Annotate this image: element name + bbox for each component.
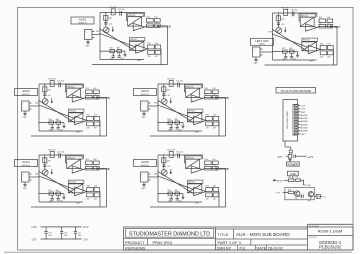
svg-text:4K7: 4K7 (94, 127, 97, 129)
svg-text:4n7: 4n7 (293, 59, 296, 61)
wire AUX1 divider branch (105, 13, 107, 28)
svg-text:100R: 100R (76, 132, 81, 134)
node CON1 pin 6 AUX3B (295, 120, 299, 122)
node AUX6 feed arrow (274, 179, 277, 181)
node IC2a designator strip (67, 85, 83, 88)
svg-text:PRODUCT: PRODUCT (125, 240, 145, 245)
resistor R52 (49, 192, 54, 195)
op-amp IC4b (75, 187, 87, 195)
svg-text:C41 47p: C41 47p (57, 151, 64, 153)
svg-text:POWER: POWER (288, 162, 299, 166)
svg-text:4K7: 4K7 (213, 198, 216, 200)
wire AUX3 bottom tap (158, 122, 183, 124)
svg-text:+: + (309, 52, 310, 54)
capacitor C35 (176, 124, 178, 127)
svg-text:R42: R42 (167, 119, 170, 121)
resistor R32 (49, 121, 54, 124)
resistor R59 (206, 193, 213, 197)
potentiometer VR2 (42, 99, 48, 105)
node CON1 pin 4 AUX1B (295, 114, 299, 116)
ground AUX5 jack ground (143, 182, 145, 185)
transistor TR1 (294, 191, 300, 197)
wire LEFT OUT bottom rail (273, 59, 317, 61)
node AUX5 output arrow (216, 168, 219, 170)
wire AUX5 lower return (150, 206, 226, 208)
connector J5 input jack (141, 172, 149, 182)
node AUX4 output arrow (97, 168, 100, 170)
svg-text:R34: R34 (204, 88, 207, 90)
svg-text:LEFT: LEFT (334, 25, 341, 29)
capacitor C54 (170, 195, 172, 198)
node AUX1 label box (71, 17, 94, 24)
resistor R40 (213, 117, 219, 121)
resistor R63 (175, 192, 180, 195)
node cue out label (320, 195, 322, 197)
resistor R21 (50, 80, 54, 86)
junction AUX4 rail taps (38, 171, 39, 172)
wire -17V rail (41, 238, 82, 240)
svg-text:(MON 3): (MON 3) (141, 94, 150, 96)
wire AUX5 divider branch (163, 155, 165, 170)
scan page-edge shadow (4, 251, 352, 253)
node CON1 pin 3 GND (295, 111, 299, 113)
wire AUX3 inner loop (218, 121, 220, 137)
node AUX2 output arrow (97, 97, 100, 99)
svg-text:DRG NO: DRG NO (309, 237, 317, 239)
svg-text:R51 10K: R51 10K (167, 150, 175, 152)
wire AUX3 stage1 out (202, 98, 204, 99)
svg-text:R48: R48 (87, 186, 90, 188)
svg-text:4n7: 4n7 (179, 201, 182, 203)
node CON1 pin 2 -17V (295, 108, 299, 110)
resistor R43 (43, 158, 47, 163)
capacitor C15 (118, 53, 120, 56)
wire LEFT OUT right loop (336, 27, 338, 66)
wire AUX2 lower return (31, 135, 107, 137)
svg-text:GND: GND (142, 188, 147, 190)
capacitor C41 (58, 153, 60, 158)
wire AUX2 left rail (38, 84, 40, 131)
svg-text:NE5532: NE5532 (188, 111, 195, 113)
svg-text:AUX3B: AUX3B (301, 120, 308, 123)
resistor R61 (288, 179, 294, 182)
resistor R51 (94, 193, 100, 197)
svg-text:AUX - MON SUB BOARD: AUX - MON SUB BOARD (236, 232, 290, 237)
resistor R18 (148, 45, 155, 49)
wire LEFT OUT inner loop (333, 50, 335, 66)
op-amp IC3a (191, 95, 202, 102)
wire LEFT OUT stage1 out (317, 27, 319, 28)
svg-text:+: + (306, 29, 307, 31)
node +VE label (304, 184, 306, 186)
svg-text:R68: R68 (320, 44, 323, 46)
resistor R71 (328, 51, 334, 55)
wire AUX5 crossover b (158, 176, 194, 189)
ground LEFT OUT jack ground (255, 57, 257, 60)
resistor R65 (319, 24, 326, 28)
svg-text:R61 10K: R61 10K (282, 8, 290, 10)
resistor R25 (86, 95, 93, 99)
resistor R73 (290, 50, 295, 53)
junction AUX2 rail taps (38, 100, 39, 101)
resistor R38 (206, 117, 213, 121)
svg-text:AUX3: AUX3 (141, 89, 149, 93)
svg-text:R41 10K: R41 10K (48, 150, 56, 152)
node POWER label box (287, 162, 300, 166)
node AUX4 send arrow (51, 169, 53, 172)
node CON1 pin 5 AUX2B (295, 117, 299, 119)
ground power ground (289, 158, 291, 160)
node title row (216, 228, 308, 230)
wire AUX3 crossover b (158, 105, 194, 118)
svg-text:AUX6B: AUX6B (301, 130, 308, 133)
wire AUX4 top rail (39, 154, 84, 156)
wire LEFT OUT divider branch (277, 13, 279, 28)
resistor R30 (94, 117, 100, 121)
svg-text:(MON 4): (MON 4) (22, 165, 31, 167)
resistor R21 (155, 50, 161, 54)
svg-text:+17V: +17V (83, 226, 89, 229)
op-amp IC4a (72, 166, 83, 173)
svg-text:C21 47p: C21 47p (57, 80, 64, 82)
capacitor C41 power (293, 155, 295, 158)
ground AUX5 bottom ground (182, 194, 184, 198)
svg-text:TR1: TR1 (294, 198, 297, 200)
diode D1 power (288, 154, 292, 158)
wire connector to power (284, 141, 286, 147)
junction AUX1 top node (126, 12, 127, 13)
svg-text:VR1: VR1 (96, 31, 100, 33)
ground LEFT OUT bottom ground (297, 52, 299, 56)
resistor R70 (328, 46, 334, 50)
junction AUX5 rail taps (157, 171, 158, 172)
capacitor C24 (51, 124, 53, 127)
resistor R22 (110, 50, 115, 53)
wire cue stub (292, 176, 294, 179)
fader F6a (300, 17, 314, 26)
svg-text:7: 7 (86, 32, 87, 34)
wire LEFT OUT crossover a (273, 30, 309, 52)
svg-text:CUE: CUE (290, 172, 296, 176)
resistor R20 (155, 45, 161, 49)
resistor R41 (50, 151, 54, 157)
svg-text:-17V: -17V (275, 193, 280, 195)
svg-text:+: + (192, 171, 193, 173)
capacitor C31 (177, 82, 179, 87)
wire AUX1 crossover b (100, 34, 136, 47)
svg-text:+: + (73, 100, 74, 102)
capacitor C42 (299, 195, 301, 197)
capacitor C40 power top (289, 150, 292, 153)
op-amp IC1b (136, 45, 148, 53)
wire +17V rail (41, 226, 82, 228)
svg-text:+: + (73, 171, 74, 173)
node LEFT OUT send arrow (284, 27, 286, 30)
svg-text:C63: C63 (327, 23, 330, 25)
resistor R56 (213, 161, 219, 165)
op-amp IC5a (191, 166, 202, 173)
resistor R46 (94, 161, 100, 165)
resistor R23 (117, 50, 122, 53)
wire AUX1 bottom rail (100, 59, 144, 61)
resistor R58 (206, 188, 213, 192)
wire AUX1 top rail (100, 12, 145, 14)
svg-text:R38: R38 (206, 115, 209, 117)
fader F4a (67, 159, 81, 168)
node title block outline (124, 227, 354, 250)
svg-text:C44: C44 (49, 201, 52, 203)
svg-text:C13: C13 (154, 22, 157, 24)
capacitor C45 (57, 195, 59, 198)
wire LEFT OUT crossover b (273, 34, 309, 47)
svg-text:100R: 100R (195, 132, 200, 134)
svg-text:+VE: +VE (306, 185, 311, 187)
svg-text:GND: GND (86, 46, 91, 48)
node CON1 pin 8 AUX5B (295, 127, 299, 129)
svg-text:+C: +C (323, 197, 326, 199)
svg-text:4K7: 4K7 (213, 127, 216, 129)
wire AUX2 stage1 out (83, 98, 85, 99)
junction LEFT OUT top node (298, 12, 299, 13)
svg-text:R28: R28 (87, 115, 90, 117)
svg-text:4K7: 4K7 (204, 165, 207, 167)
resistor R57 (213, 166, 219, 170)
node AUX2 send arrow (51, 98, 53, 101)
wire AUX2 right loop (106, 98, 108, 137)
wire AUX4 stage1 feedback (82, 155, 84, 159)
svg-text:AUX6: AUX6 (277, 180, 283, 183)
wire AUX3 stage1 feedback (201, 84, 203, 88)
wire AUX2 divider branch (44, 84, 46, 99)
svg-text:C52: C52 (167, 166, 170, 168)
svg-text:4n7: 4n7 (60, 201, 63, 203)
connector CON2 cue out (316, 194, 320, 198)
potentiometer VR5 (161, 170, 167, 176)
svg-text:100n: 100n (64, 235, 68, 237)
potentiometer VR6 (276, 28, 282, 34)
capacitor C11 (119, 11, 121, 16)
wire AUX4 right loop (106, 169, 108, 208)
connector J4 input jack (22, 172, 30, 182)
svg-text:NE5532: NE5532 (188, 182, 195, 184)
op-amp IC5b (194, 187, 206, 195)
wire LEFT OUT lower return (265, 64, 338, 66)
wire AUX3 lower return (150, 135, 226, 137)
wire AUX3 crossover a (158, 101, 194, 123)
capacitor C21 (58, 82, 60, 87)
fader F3a (186, 88, 200, 97)
node AUX1 send arrow (112, 27, 114, 30)
svg-text:100R: 100R (309, 61, 314, 63)
svg-text:4n7: 4n7 (60, 130, 63, 132)
resistor R33 (56, 121, 61, 124)
wire LEFT OUT output line (319, 26, 337, 28)
svg-text:VR5: VR5 (154, 174, 158, 176)
ground AUX1 jack ground (87, 40, 89, 43)
svg-text:C53: C53 (212, 165, 215, 167)
svg-text:C32: C32 (167, 95, 170, 97)
op-amp IC2b (75, 116, 87, 124)
node LEFT OUT output arrow (330, 26, 333, 28)
svg-text:VR2: VR2 (35, 103, 39, 105)
resistor R13 (104, 15, 108, 20)
fader F1b (129, 41, 144, 50)
capacitor C64 (285, 53, 287, 56)
resistor R54 (205, 161, 212, 165)
wire AUX2 top rail (39, 83, 84, 85)
node CON1 pin 7 AUX4B (295, 124, 299, 126)
svg-text:7: 7 (23, 104, 24, 106)
fader F5b (187, 184, 202, 193)
svg-text:+: + (194, 194, 195, 196)
node AUX1 output arrow (158, 25, 161, 27)
node AUX2 label box (15, 89, 38, 96)
node IC3a designator strip (186, 85, 202, 88)
node AUX5 send arrow (170, 169, 172, 172)
resistor R27 (94, 95, 100, 99)
svg-text:R72: R72 (282, 48, 285, 50)
wire AUX4 crossover a (39, 172, 75, 194)
resistor R17 (155, 24, 161, 28)
wire AUX5 left rail (157, 155, 159, 202)
wire AUX1 crossover a (100, 29, 136, 51)
capacitor C61 (291, 11, 293, 16)
svg-text:R24: R24 (85, 88, 88, 90)
svg-text:LEFT: LEFT (301, 134, 307, 136)
svg-text:R11 10K: R11 10K (109, 7, 117, 9)
fader F2a (67, 88, 81, 97)
resistor R37 (213, 95, 219, 99)
svg-text:4K7: 4K7 (155, 56, 158, 58)
capacitor C32 (162, 93, 165, 95)
resistor R11 (111, 9, 115, 15)
node IC5b designator strip (187, 180, 203, 183)
node LEFT OUT label box (251, 38, 274, 45)
fader F6b (302, 42, 317, 51)
resistor R51 (169, 151, 173, 157)
wire AUX4 inner loop (99, 192, 101, 208)
capacitor C51 (177, 153, 179, 158)
resistor R31 (94, 122, 100, 126)
svg-text:C33: C33 (212, 94, 215, 96)
capacitor C44 (51, 195, 53, 198)
resistor R55 (205, 166, 212, 170)
svg-text:100R: 100R (195, 203, 200, 205)
svg-text:4n7: 4n7 (179, 130, 182, 132)
svg-text:7: 7 (142, 175, 143, 177)
potentiometer VR4 (42, 170, 48, 176)
node IC6b designator strip (302, 38, 318, 41)
svg-text:-17V: -17V (31, 238, 37, 241)
svg-text:PART 1 OF 1: PART 1 OF 1 (218, 240, 242, 245)
wire AUX3 right loop (225, 98, 227, 137)
wire LEFT OUT left rail (272, 13, 274, 60)
svg-text:R62: R62 (167, 190, 170, 192)
resistor R26 (94, 90, 100, 94)
svg-text:NE5532: NE5532 (130, 39, 137, 41)
resistor R15 (147, 24, 154, 28)
node IC1a designator strip (128, 13, 144, 16)
wire LEFT OUT stage1 feedback (316, 13, 318, 17)
resistor R29 (87, 122, 94, 126)
node IC1b designator strip (129, 38, 145, 41)
resistor R14 (147, 19, 154, 23)
svg-text:VR4: VR4 (35, 174, 39, 176)
svg-text:AUX3B: AUX3B (219, 96, 229, 100)
wire AUX1 stage1 feedback (143, 13, 145, 17)
wire cue out (314, 195, 316, 197)
svg-text:R31 10K: R31 10K (167, 79, 175, 81)
svg-text:C64: C64 (282, 59, 285, 61)
resistor R28 (87, 117, 94, 121)
node company cell (125, 229, 214, 238)
wire AUX1 right loop (167, 26, 169, 65)
wire AUX5 inner loop (218, 192, 220, 208)
op-amp IC2a (72, 95, 83, 102)
svg-text:(MON 5): (MON 5) (141, 165, 150, 167)
svg-text:AUX5B: AUX5B (301, 127, 308, 130)
svg-text:PR02 (RG): PR02 (RG) (153, 240, 173, 245)
junction AUX5 top node (184, 154, 185, 155)
wire AUX3 output line (205, 97, 226, 99)
svg-text:4n7: 4n7 (121, 58, 124, 60)
resistor R31 (169, 80, 173, 86)
connector J2 input jack (22, 101, 30, 111)
svg-text:STUDIOMASTER DIAMOND LTD: STUDIOMASTER DIAMOND LTD (129, 231, 210, 237)
svg-text:4K7: 4K7 (94, 198, 97, 200)
resistor R16 (155, 19, 161, 23)
resistor R67 (327, 24, 333, 28)
fader F2b (68, 113, 83, 122)
svg-text:(MON 1): (MON 1) (78, 22, 87, 24)
wire AUX4 output line (86, 168, 107, 170)
node IC2b designator strip (68, 109, 84, 112)
wire LEFT OUT bottom tap (273, 51, 298, 53)
wire AUX3 top rail (158, 83, 203, 85)
node CUE label box (287, 171, 298, 176)
svg-text:NE5532: NE5532 (69, 182, 76, 184)
svg-text:R64: R64 (319, 17, 322, 19)
ground AUX3 jack ground (143, 111, 145, 114)
wire AUX1 inner loop (160, 49, 162, 65)
svg-text:-17V: -17V (301, 109, 306, 111)
svg-text:+: + (192, 100, 193, 102)
svg-text:C61 47p: C61 47p (291, 9, 298, 11)
svg-text:R32: R32 (48, 119, 51, 121)
connector CON1 housing (283, 100, 298, 142)
node AUX4 label box (15, 160, 38, 167)
connector J6 input jack (253, 47, 261, 57)
svg-text:R61: R61 (288, 177, 291, 179)
svg-text:TITLE: TITLE (218, 232, 229, 237)
wire AUX4 crossover b (39, 176, 75, 189)
node IC4a designator strip (67, 156, 83, 159)
resistor R34 (205, 90, 212, 94)
node connector title box (276, 88, 316, 94)
wire AUX3 bottom rail (158, 130, 202, 132)
svg-text:AUX5: AUX5 (141, 160, 149, 164)
node CON1 pin 1 +17V (295, 105, 299, 107)
svg-text:C24: C24 (49, 130, 52, 132)
capacitor C30 (61, 227, 63, 231)
wire AUX4 left rail (38, 155, 40, 202)
svg-text:R22: R22 (109, 48, 112, 50)
connector J3 input jack (141, 101, 149, 111)
resistor R36 (213, 90, 219, 94)
resistor R48 (87, 188, 94, 192)
svg-text:C34: C34 (168, 130, 171, 132)
capacitor C29 (45, 227, 47, 231)
